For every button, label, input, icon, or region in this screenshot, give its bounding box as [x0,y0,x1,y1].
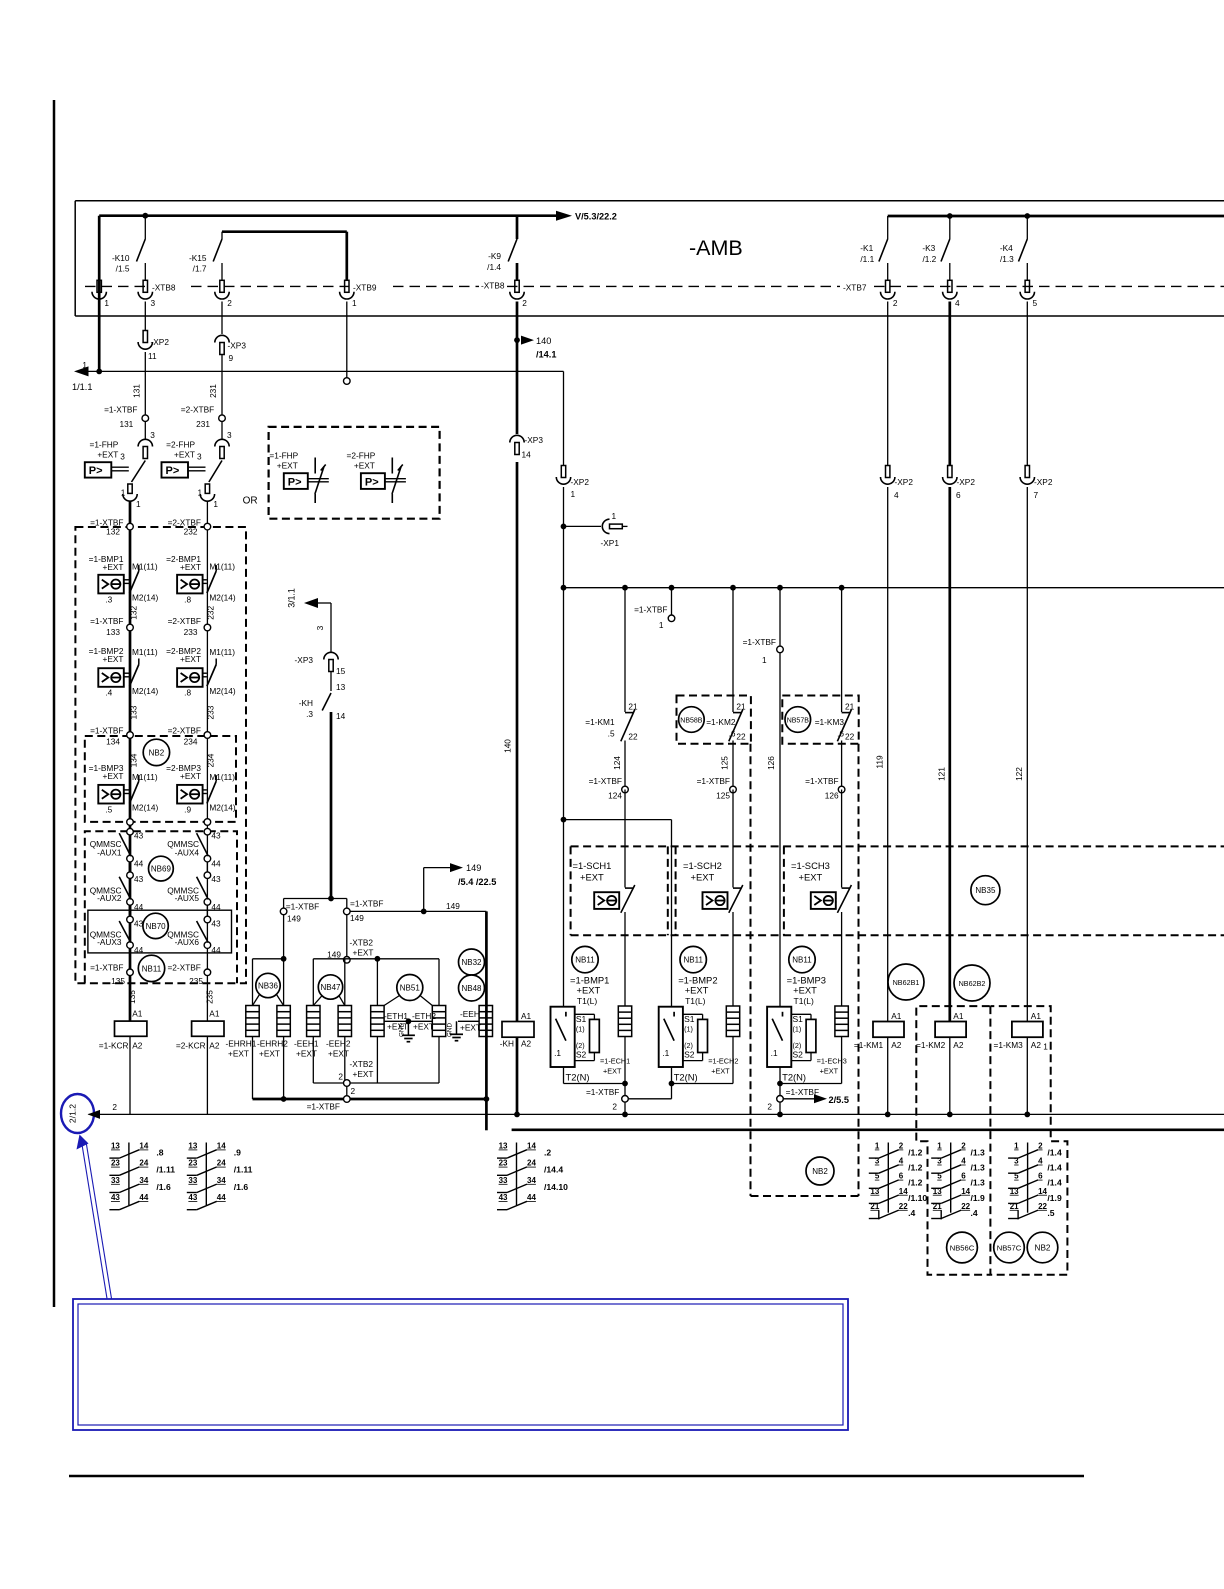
control rail (node 1) [564,587,1224,589]
svg-text:-AMB: -AMB [689,236,743,260]
svg-text:+EXT: +EXT [328,1049,349,1059]
svg-text:.6: .6 [837,729,844,739]
svg-text:+EXT: +EXT [577,985,601,996]
svg-text:44: 44 [211,945,221,955]
svg-text:M1(11): M1(11) [209,647,235,657]
group3 neutral to terminal =1-XTBF:2 and arrow 2/5.5 [777,1081,783,1087]
svg-text:=1-XTBF: =1-XTBF [743,637,776,647]
svg-text:NB36: NB36 [258,981,279,990]
svg-text:-XTB2: -XTB2 [350,938,374,948]
wire 121 (K3 column, heavy) [948,302,951,466]
svg-text:21: 21 [628,702,638,712]
svg-text:44: 44 [211,902,221,912]
svg-text:-XTB7: -XTB7 [843,283,867,293]
contactor contact -K4 /1.3 [1026,216,1028,239]
aux contact QMMSC-AUX4 [204,855,211,862]
terminal -XTB2:149 +EXT [344,957,351,964]
svg-text:1: 1 [352,298,357,308]
svg-text:(1): (1) [684,1025,693,1034]
svg-text:132: 132 [106,527,120,537]
svg-text:A1: A1 [132,1009,143,1019]
svg-text:-K3: -K3 [922,243,935,253]
svg-text:M2(14): M2(14) [209,803,236,813]
svg-text:3: 3 [197,452,202,462]
svg-text:2: 2 [961,1142,966,1151]
svg-text:1: 1 [213,499,218,509]
contact table =1-KM1 [887,1143,889,1213]
svg-text:21: 21 [845,702,855,712]
svg-text:+EXT: +EXT [174,450,195,460]
wire T1 feed into =1-BMP2 [671,1006,673,1008]
svg-text:.4: .4 [105,688,112,698]
svg-text:+EXT: +EXT [793,985,817,996]
svg-text:-XP1: -XP1 [601,538,620,548]
svg-text:/1.2: /1.2 [908,1148,923,1158]
NB62B2 note circle [954,965,990,1001]
svg-text:-EEH1: -EEH1 [294,1039,319,1049]
svg-text:11: 11 [148,351,157,361]
svg-text:43: 43 [211,831,221,841]
aux NC contact =1-KM1 .5 (21/22) [624,588,626,712]
wire to -XP2:1 column [563,371,565,465]
svg-text:2: 2 [1038,1142,1043,1151]
svg-text:-EEH2: -EEH2 [326,1039,351,1049]
inner dashed box (BMP3 row) [85,736,236,822]
svg-text:/1.2: /1.2 [908,1178,923,1188]
svg-text:23: 23 [499,1159,508,1168]
terminal =1-XTBF:135 [127,969,134,976]
terminal =1-XTBF:125 [730,786,737,793]
svg-text:149: 149 [327,950,341,960]
svg-text:119: 119 [874,755,884,769]
terminal block stack (group) [726,1006,739,1037]
svg-text:NB11: NB11 [683,956,703,965]
svg-text:A1: A1 [521,1011,532,1021]
svg-text:-XP3: -XP3 [525,435,544,445]
svg-text:134: 134 [106,737,120,747]
top-right feeder wire (heavy) [888,215,1224,218]
blue leader arrow from blue box to circle 2/1.2 [82,1142,108,1299]
svg-text:125: 125 [716,791,730,801]
svg-text:.1: .1 [554,1048,561,1058]
svg-text:NB58B: NB58B [680,717,703,724]
svg-text:=2-KCR: =2-KCR [176,1041,206,1051]
T2 neutral link [671,1067,673,1084]
svg-text:NB35: NB35 [975,886,996,895]
svg-text:=1-XTBF: =1-XTBF [286,902,319,912]
svg-text:2: 2 [351,1086,356,1096]
contact table =1-KM2 [950,1143,952,1213]
svg-text:-XP2: -XP2 [1034,477,1053,487]
svg-text:4: 4 [955,298,960,308]
svg-text:121: 121 [936,767,946,781]
svg-text:1: 1 [571,489,576,499]
svg-text:T2(N): T2(N) [566,1072,590,1083]
svg-text:22: 22 [1038,1202,1047,1211]
svg-text:4: 4 [1038,1157,1043,1166]
aux contact QMMSC-AUX3 [127,916,134,923]
svg-text:22: 22 [845,732,855,742]
svg-text:=1-KM1: =1-KM1 [585,717,615,727]
left unit wires to 149 return [252,1037,254,1100]
aux NC contact =1-KM3 .6 (21/22) [841,588,843,712]
svg-text:232: 232 [184,527,198,537]
svg-text:=1-ECH1: =1-ECH1 [600,1057,630,1066]
connector -XP3:15 [324,652,338,659]
svg-text:/1.9: /1.9 [1047,1193,1062,1203]
svg-text:+EXT: +EXT [228,1049,249,1059]
svg-text:13: 13 [933,1187,942,1196]
group2 feed jog wire [564,819,672,821]
svg-text:14: 14 [522,450,532,460]
heater bottom rail (EEH/ETH box) [313,1082,439,1084]
svg-text:+EXT: +EXT [180,654,201,664]
svg-text:.5: .5 [105,804,112,814]
svg-text:33: 33 [111,1176,120,1185]
svg-text:44: 44 [134,859,144,869]
svg-text:=1-SCH2: =1-SCH2 [683,860,722,871]
dashed box around KM3 aux [782,696,858,744]
svg-text:=1-XTBF: =1-XTBF [805,776,838,786]
svg-text:1: 1 [659,620,664,630]
svg-text:NB70: NB70 [146,922,167,931]
wire (heavy riser left) [98,216,101,372]
wire 231 top / connector -XP3:9 [221,302,223,335]
wire 149 down to XTB2 [346,915,348,957]
svg-text:A2: A2 [209,1041,220,1051]
relay contact -KH .3 [322,693,331,711]
contactor contact -K10 /1.5 [144,216,146,239]
svg-text:A1: A1 [891,1011,902,1021]
svg-text:3: 3 [227,430,232,440]
svg-text:233: 233 [184,627,198,637]
svg-text:+EXT: +EXT [460,1023,481,1033]
svg-text:A1: A1 [1031,1011,1042,1021]
NB47 note circle [318,975,342,999]
NB11 note circle (=1-BMP3) [789,946,815,972]
svg-text:-XP3: -XP3 [295,655,314,665]
svg-text:P>: P> [166,465,180,477]
svg-text:NB11: NB11 [575,956,595,965]
svg-text:NB57B: NB57B [787,717,810,724]
svg-text:=1-XTBF: =1-XTBF [350,899,383,909]
NB2 note circle (bottom) [1027,1232,1058,1263]
svg-text:.2: .2 [544,1148,551,1158]
svg-text:43: 43 [111,1193,120,1202]
svg-text:14: 14 [336,711,346,721]
svg-text:/1.1: /1.1 [860,254,874,264]
svg-text:M1(11): M1(11) [209,772,235,782]
svg-text:NB62B1: NB62B1 [893,978,920,987]
svg-text:=1-SCH3: =1-SCH3 [791,860,830,871]
svg-text:122: 122 [1014,767,1024,781]
svg-text:P>: P> [89,465,103,477]
heater top rail (EEH/ETH units) [313,958,439,960]
svg-text:33: 33 [499,1176,508,1185]
contactor contact -K9 /1.4 (heavy column) [516,216,519,239]
svg-text:2: 2 [893,298,898,308]
svg-text:231: 231 [208,384,218,398]
NB62B1 note circle [888,964,924,1000]
svg-text:+EXT: +EXT [711,1067,730,1076]
svg-text:+EXT: +EXT [180,562,201,572]
svg-text:140: 140 [536,336,551,346]
svg-text:S1: S1 [576,1014,587,1024]
node 149 top link [284,898,347,900]
svg-text:.3: .3 [105,594,112,604]
relay coil =2-KCR [192,1021,224,1036]
svg-text:S1: S1 [684,1014,695,1024]
svg-text:-XP3: -XP3 [228,341,247,351]
terminal =1-XTBF:134 [127,732,134,739]
page left border line [53,100,56,1307]
svg-text:33: 33 [188,1176,197,1185]
svg-text:+EXT: +EXT [685,985,709,996]
NB32 note circle [459,949,485,975]
svg-text:235: 235 [204,990,214,1004]
wire T1 feed into =1-BMP1 [563,1006,565,1008]
inner dashed box (QMMSC aux section) [85,831,237,983]
svg-text:/14.4: /14.4 [544,1165,563,1175]
svg-text:M1(11): M1(11) [209,562,235,572]
bus wire 2 (bottom control) [89,1113,1224,1115]
overpressure switch =1-FHP +EXT [144,422,146,441]
svg-text:2: 2 [227,298,232,308]
svg-text:1: 1 [875,1142,880,1151]
svg-text:=1-KCR: =1-KCR [99,1041,129,1051]
svg-text:.1: .1 [771,1048,778,1058]
terminal =2-XTBF:235 [204,969,211,976]
terminal -XTB8:2 [220,280,224,292]
svg-text:1: 1 [82,360,87,370]
svg-text:-EEH: -EEH [460,1009,480,1019]
svg-text:+EXT: +EXT [691,872,715,883]
svg-text:133: 133 [106,627,120,637]
terminal =1-XTBF:131 [142,415,149,422]
svg-text:=1-XTBF: =1-XTBF [90,616,123,626]
svg-text:44: 44 [134,945,144,955]
heater top rail (left unit) [253,958,284,960]
NB2 note circle (group3) [806,1157,834,1185]
svg-text:6: 6 [956,490,961,500]
svg-text:-ETH1: -ETH1 [384,1011,408,1021]
heater -EEH1 +EXT terminal block [307,1006,320,1037]
svg-text:/1.11: /1.11 [156,1165,175,1175]
temperature sensor =1-ECH1 +EXT [590,1019,600,1052]
svg-text:2: 2 [338,1072,343,1082]
svg-text:.9: .9 [184,804,191,814]
svg-text:-AUX2: -AUX2 [97,893,122,903]
svg-text:21: 21 [736,702,746,712]
svg-text:3: 3 [875,1157,880,1166]
svg-text:M2(14): M2(14) [132,803,159,813]
svg-text:+EXT: +EXT [97,450,118,460]
thermostat dashed band (SCH row) [571,845,1224,847]
svg-text:M1(11): M1(11) [132,772,158,782]
NB51 note circle [397,975,423,1001]
svg-text:T1(L): T1(L) [577,996,597,1006]
svg-text:T1(L): T1(L) [794,996,814,1006]
svg-text:43: 43 [499,1193,508,1202]
wire 119 (K1 column) [887,302,889,466]
svg-text:NB2: NB2 [1035,1243,1051,1252]
ETH centre tap to ground [384,1020,432,1022]
svg-text:22: 22 [628,732,638,742]
svg-text:GND: GND [399,1023,406,1037]
svg-text:P>: P> [365,476,379,488]
blue annotation box (empty, double border) [73,1299,848,1430]
svg-text:M2(14): M2(14) [209,592,236,602]
group2 neutral riser [669,1081,675,1087]
terminal block stack (group) [835,1006,848,1037]
svg-text:5: 5 [937,1172,942,1181]
svg-text:3: 3 [120,452,125,462]
wire T1 feed into =1-BMP3 [779,1006,781,1008]
net arrow 149 /5.4 /22.5 [423,868,425,912]
svg-text:149: 149 [350,913,364,923]
svg-text:1: 1 [1043,1042,1048,1052]
svg-text:24: 24 [527,1159,536,1168]
svg-text:-AUX4: -AUX4 [175,848,200,858]
svg-text:=1-XTBF: =1-XTBF [307,1102,340,1112]
overpressure switch =2-FHP +EXT [221,422,223,441]
svg-text:5: 5 [1033,298,1038,308]
svg-text:2: 2 [899,1142,904,1151]
svg-text:A2: A2 [953,1040,964,1050]
svg-text:5: 5 [875,1172,880,1181]
svg-text:+EXT: +EXT [103,654,124,664]
svg-text:23: 23 [188,1159,197,1168]
svg-text:=1-XTBF: =1-XTBF [634,605,667,615]
aux contact QMMSC-AUX2 [127,872,134,879]
149 return line (heavy) [253,1098,487,1101]
svg-text:135: 135 [111,976,125,986]
svg-text:131: 131 [132,384,142,398]
svg-text:NB48: NB48 [461,984,482,993]
svg-text:231: 231 [196,419,210,429]
svg-text:3: 3 [937,1157,942,1166]
contact table =1-KCR [128,1143,130,1206]
svg-text:43: 43 [134,874,144,884]
heater -EEH2 +EXT terminal block [338,1006,351,1037]
svg-text:2/5.5: 2/5.5 [829,1095,849,1105]
wire 232/233/234/235 [206,501,208,1021]
plug -XP1:1 [561,524,567,530]
svg-text:=1-XTBF: =1-XTBF [697,776,730,786]
svg-text:-XP2: -XP2 [151,337,170,347]
svg-text:1/1.1: 1/1.1 [72,382,92,392]
NB57B note circle [785,707,811,733]
NB11 note circle [138,955,164,981]
svg-text:NB2: NB2 [149,748,165,757]
svg-text:-K1: -K1 [860,243,873,253]
svg-text:/1.3: /1.3 [1000,254,1014,264]
dashed box KM2 section [916,1006,990,1275]
svg-text:+EXT: +EXT [354,461,375,471]
NB36 note circle [256,973,280,997]
NB11 note circle (=1-BMP2) [680,946,706,972]
NB70 note circle [143,913,168,938]
svg-text:A2: A2 [132,1041,143,1051]
svg-text:-XTB8: -XTB8 [481,281,505,291]
svg-text:21: 21 [1010,1202,1019,1211]
svg-text:=1-SCH1: =1-SCH1 [573,860,612,871]
svg-text:=1-ECH2: =1-ECH2 [708,1057,738,1066]
NB2 note circle [143,739,169,765]
svg-text:22: 22 [736,732,746,742]
solid box (NB70 row) [88,910,232,953]
terminal -XTB8:1 [97,280,101,292]
svg-text:/1.11: /1.11 [234,1165,253,1175]
svg-text:/1.9: /1.9 [971,1193,986,1203]
svg-text:+EXT: +EXT [277,461,298,471]
terminal strip dashed line -XTB8 / -XTB9 / -XTB7 [85,285,148,287]
svg-text:2: 2 [522,298,527,308]
terminal -XTB8:3 [143,280,147,292]
svg-text:=1-FHP: =1-FHP [269,450,298,460]
net arrow 3/1.1 [330,603,332,652]
svg-text:=2-XTBF: =2-XTBF [181,405,214,415]
svg-text:124: 124 [608,791,622,801]
svg-text:/1.4: /1.4 [1047,1163,1062,1173]
svg-text:14: 14 [1038,1187,1047,1196]
svg-text:124: 124 [612,756,622,770]
svg-text:-XP2: -XP2 [895,477,914,487]
svg-text:43: 43 [134,831,144,841]
svg-text:+EXT: +EXT [413,1022,434,1032]
svg-text:-AUX1: -AUX1 [97,848,122,858]
group1 feed wire [563,588,565,1007]
svg-text:-ETH2: -ETH2 [412,1011,436,1021]
svg-text:/1.10: /1.10 [908,1193,927,1203]
NB69 note circle [149,856,174,881]
svg-text:/1.4: /1.4 [1047,1148,1062,1158]
svg-text:24: 24 [139,1159,148,1168]
contactor coil =1-KM2 [935,1022,966,1038]
wire 131 top / connector -XP2:11 [144,302,146,331]
aux contact QMMSC-AUX1 [127,855,134,862]
heater -EEH +EXT terminal block [479,1006,492,1037]
svg-text:=2-XTBF: =2-XTBF [168,616,201,626]
svg-text:.8: .8 [156,1148,163,1158]
heavy bottom line [512,1128,1224,1131]
connector pin 1 (FHP bottom) [205,484,209,493]
svg-text:14: 14 [139,1142,148,1151]
svg-text:NB11: NB11 [142,964,162,973]
svg-text:P>: P> [288,476,302,488]
net arrow 140 /14.1 [514,337,520,343]
svg-text:/5.4 /22.5: /5.4 /22.5 [458,877,496,887]
svg-text:=1-FHP: =1-FHP [89,440,118,450]
heater -EHRH2 +EXT terminal block [277,1006,290,1037]
terminal =2-XTBF:232 [204,523,211,530]
svg-text:13: 13 [336,682,346,692]
contact table =1-KM3 [1027,1143,1029,1213]
svg-text:+EXT: +EXT [296,1049,317,1059]
svg-text:NB69: NB69 [151,865,172,874]
svg-text:1: 1 [104,298,109,308]
connector -XP2:1 [561,466,565,478]
svg-text:/1.7: /1.7 [193,264,207,274]
svg-text:125: 125 [720,756,730,770]
svg-text:.1: .1 [662,1048,669,1058]
NB35 note circle [971,876,1000,905]
svg-text:-XP2: -XP2 [571,477,590,487]
node 149 wire to EEH branch [350,910,486,912]
NB48 note circle [459,975,485,1001]
svg-text:14: 14 [961,1187,970,1196]
dashed box around KM2 aux [677,696,751,744]
